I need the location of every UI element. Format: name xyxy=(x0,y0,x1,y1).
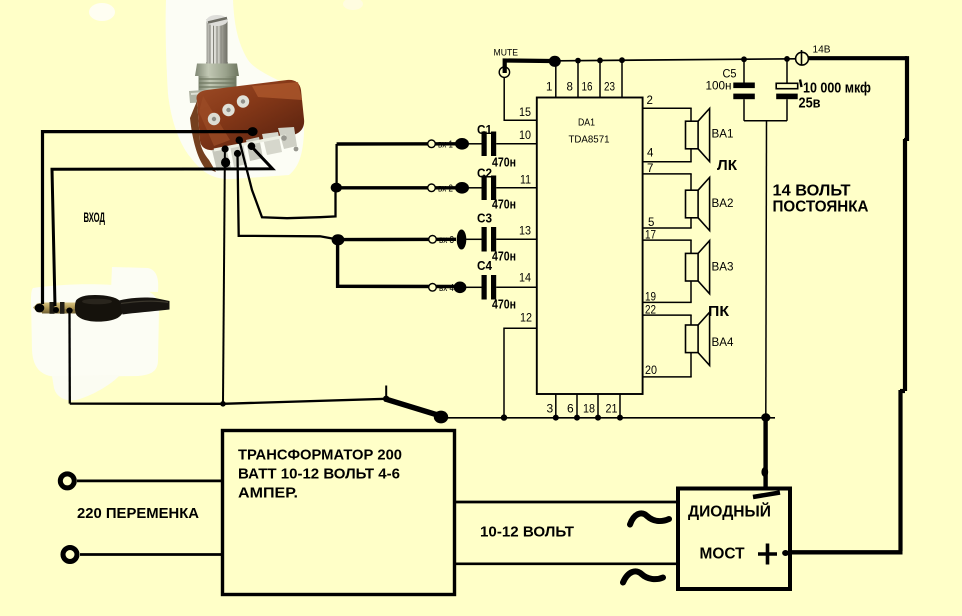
svg-text:12: 12 xyxy=(520,311,532,325)
svg-text:14 ВОЛЬТ: 14 ВОЛЬТ xyxy=(773,183,852,200)
terminal: Vx1 input circle and label xyxy=(428,140,454,151)
svg-text:14В: 14В xyxy=(813,44,831,56)
node: Vx4 solder blob xyxy=(454,282,467,294)
wire: BA4 bottom stub xyxy=(690,353,692,377)
svg-text:16: 16 xyxy=(582,82,593,94)
svg-text:MUTE: MUTE xyxy=(494,48,519,59)
svg-text:8: 8 xyxy=(567,82,573,94)
capacitor C6 electrolytic 10000uF xyxy=(776,59,871,121)
svg-text:TDA8571: TDA8571 xyxy=(569,134,610,146)
wire: pin 7 to BA2 xyxy=(643,173,692,175)
svg-text:вх 1: вх 1 xyxy=(438,140,453,151)
wire: 220V lower lead xyxy=(80,553,223,556)
svg-text:18: 18 xyxy=(583,402,595,416)
wire: pin 2 to BA1 xyxy=(643,107,692,109)
terminal: MUTE connector circle xyxy=(499,67,509,77)
wire: C3 to pin 13 xyxy=(496,238,537,240)
pin 16 lead xyxy=(599,60,601,97)
svg-text:13: 13 xyxy=(519,224,531,238)
wire: Vx2 feed xyxy=(340,186,457,189)
wire: ground bus xyxy=(446,417,775,419)
svg-text:6: 6 xyxy=(567,402,574,416)
svg-text:5: 5 xyxy=(648,217,654,229)
node: switch pivot dot xyxy=(383,396,389,402)
svg-text:23: 23 xyxy=(604,82,615,94)
svg-text:C4: C4 xyxy=(477,259,492,273)
wire: BA4 top stub xyxy=(690,315,692,325)
pin 3 lead xyxy=(555,394,557,418)
wire: +supply top bus xyxy=(559,59,796,61)
svg-text:BA2: BA2 xyxy=(712,198,734,210)
wire: C2 to pin 11 xyxy=(496,187,537,189)
wire: C1 to pin 10 xyxy=(496,143,537,145)
pin 23 lead xyxy=(621,60,623,97)
switch SA1 contact tick xyxy=(385,386,387,399)
svg-text:220 ПЕРЕМЕНКА: 220 ПЕРЕМЕНКА xyxy=(77,505,199,522)
label: 14 VOLT POSTOYANKA xyxy=(773,183,869,216)
transformer T1 box xyxy=(223,431,455,595)
node: pin12 ground junction dot xyxy=(501,414,507,420)
capacitor C5 xyxy=(706,59,755,121)
node: dot pin 23 xyxy=(619,57,625,63)
svg-text:10-12 ВОЛЬТ: 10-12 ВОЛЬТ xyxy=(480,524,574,541)
node A: junction blob Vx1+Vx2 xyxy=(331,183,342,193)
wire: BA3 bottom stub xyxy=(690,281,692,302)
svg-text:ПК: ПК xyxy=(708,304,729,320)
svg-text:ПОСТОЯНКА: ПОСТОЯНКА xyxy=(773,199,869,216)
svg-text:19: 19 xyxy=(645,292,656,304)
wire: Vx3 blob to C3 xyxy=(466,238,482,240)
wire: node A up to Vx1 line xyxy=(335,144,337,186)
svg-text:2: 2 xyxy=(647,95,653,107)
terminal: +14V connector circle xyxy=(796,44,831,66)
wire: pin 5 to BA2 xyxy=(643,227,692,229)
svg-text:МОСТ: МОСТ xyxy=(700,546,746,563)
svg-text:470н: 470н xyxy=(492,156,516,170)
wire: BA1 bottom stub xyxy=(690,149,692,162)
node: dot pin 16 xyxy=(597,58,603,64)
svg-text:вх 3: вх 3 xyxy=(439,235,454,246)
diode bridge VD1 box xyxy=(678,489,790,590)
node: pot terminal B solder dot xyxy=(234,150,241,157)
capacitor C2 xyxy=(477,167,516,212)
wire: filter ground drop to ground bus xyxy=(765,121,768,416)
pin 6 lead xyxy=(576,394,578,418)
wire: Vx1 blob to C1 xyxy=(467,143,482,145)
node: dot pin 8 xyxy=(575,58,581,64)
svg-text:C1: C1 xyxy=(477,123,492,137)
terminal: 220V lower ring xyxy=(63,548,77,562)
node: Vx2 solder blob xyxy=(455,182,469,194)
node: dot pin 18 xyxy=(595,415,601,421)
node: pot terminal T solder dot xyxy=(248,127,258,136)
terminal: Vx2 input circle and label xyxy=(428,184,454,195)
wire: BA2 top stub xyxy=(690,174,692,190)
wire: pot terminal B to input node B xyxy=(238,154,334,239)
wire: BA3 top stub xyxy=(690,240,692,253)
node B: junction blob Vx3+Vx4 xyxy=(332,234,345,245)
speaker BA4 xyxy=(686,312,735,365)
wire: C4 to pin 14 xyxy=(496,286,537,288)
wire: pin 22 to BA4 xyxy=(643,314,692,316)
node: pot-ground junction dot xyxy=(220,401,226,407)
AC tilde mark upper xyxy=(630,513,669,524)
svg-text:ДИОДНЫЙ: ДИОДНЫЙ xyxy=(688,503,771,521)
pin 1 lead xyxy=(555,61,557,98)
wire: MUTE lever to pin1 node (thick) xyxy=(505,61,550,74)
svg-text:вх 2: вх 2 xyxy=(438,184,453,195)
wire: 220V upper lead xyxy=(77,480,223,483)
svg-text:1: 1 xyxy=(546,82,552,94)
wire: pot ground lug to ground line xyxy=(223,150,225,403)
node: pot terminal R solder dot xyxy=(248,142,256,150)
svg-text:15: 15 xyxy=(519,105,531,119)
svg-text:25в: 25в xyxy=(799,96,821,112)
wire: Vx3 feed xyxy=(342,238,456,242)
node: dot C6 top xyxy=(784,56,790,62)
svg-text:470н: 470н xyxy=(492,298,516,312)
op-amp IC DA1 TDA8571 xyxy=(537,98,643,395)
wire: pin 12 to ground bus xyxy=(504,328,537,416)
wire: Vx1 feed xyxy=(337,142,457,146)
svg-text:BA3: BA3 xyxy=(712,262,734,274)
svg-text:21: 21 xyxy=(606,402,618,416)
wire: ground line from jack sleeve xyxy=(66,308,386,404)
wire: BA2 bottom stub xyxy=(690,218,692,228)
wire: pin 20 to BA4 xyxy=(643,376,692,378)
speaker BA1 xyxy=(686,108,734,161)
node: blob on bridge feed xyxy=(761,467,768,477)
svg-text:3: 3 xyxy=(547,402,554,416)
wire: Vx2 blob to C2 xyxy=(467,187,482,189)
svg-text:20: 20 xyxy=(645,365,657,377)
node: Vx1 solder blob xyxy=(455,138,469,150)
node: solder blob on pot ground lead xyxy=(221,158,230,168)
capacitor C3 xyxy=(477,212,516,264)
wire: Vx4 blob to C4 xyxy=(466,286,482,288)
svg-text:ТРАНСФОРМАТОР 200: ТРАНСФОРМАТОР 200 xyxy=(238,447,402,464)
svg-text:C2: C2 xyxy=(477,167,492,181)
wire: C5/C6 ground link xyxy=(744,120,787,122)
svg-text:DA1: DA1 xyxy=(578,117,595,129)
node: jack ring joint xyxy=(53,307,59,313)
wire: BA1 top stub xyxy=(690,108,692,121)
wire: secondary lower lead xyxy=(455,562,678,565)
svg-text:470н: 470н xyxy=(492,250,516,264)
svg-text:10 000 мкф: 10 000 мкф xyxy=(803,81,871,97)
speaker BA2 xyxy=(686,177,734,230)
wire: thick +14V feed right side xyxy=(790,56,907,552)
node: dot pin 21 xyxy=(617,415,623,421)
node: pot terminal L solder dot xyxy=(222,145,229,152)
node: dot C5 top xyxy=(741,56,747,62)
pin 21 lead xyxy=(619,394,621,418)
pin 8 lead xyxy=(577,61,579,98)
capacitor C4 xyxy=(477,259,516,312)
svg-text:BA4: BA4 xyxy=(712,337,735,349)
svg-text:АМПЕР.: АМПЕР. xyxy=(238,485,298,502)
svg-text:ВАТТ 10-12 ВОЛЬТ 4-6: ВАТТ 10-12 ВОЛЬТ 4-6 xyxy=(238,466,400,483)
potentiometer RP1 (photo) xyxy=(166,0,305,179)
terminal: Vx3 input circle and label xyxy=(429,235,455,246)
svg-text:470н: 470н xyxy=(492,198,516,212)
svg-text:10: 10 xyxy=(519,128,531,142)
wire: secondary upper lead xyxy=(455,501,678,504)
speaker BA3 xyxy=(686,241,734,294)
terminal: Vx4 input circle and label xyxy=(429,283,455,294)
pin 18 lead xyxy=(597,394,599,418)
svg-text:ЛК: ЛК xyxy=(717,158,737,174)
svg-text:14: 14 xyxy=(519,271,531,285)
label: bridge plus sign xyxy=(758,544,777,565)
svg-text:100н: 100н xyxy=(706,79,732,93)
node: pot wiper M solder dot xyxy=(236,136,244,144)
node: Vx3 solder blob xyxy=(457,230,467,250)
node: plus output dot xyxy=(782,550,789,556)
svg-text:7: 7 xyxy=(647,163,653,175)
node: pin1 junction dot on +bus xyxy=(549,56,561,67)
AC tilde mark lower xyxy=(623,571,663,582)
node: jack tip joint xyxy=(35,304,45,313)
wire: pin 17 to BA3 xyxy=(643,239,692,241)
svg-text:вх 4: вх 4 xyxy=(439,283,454,294)
wire: node B down and Vx4 feed xyxy=(338,244,455,287)
node: dot pin 6 xyxy=(574,415,580,421)
svg-text:11: 11 xyxy=(520,173,531,187)
capacitor C1 xyxy=(477,123,516,170)
wire: MUTE circle down to pin 15 xyxy=(504,78,537,121)
wire: pot terminal R to jack ring xyxy=(52,147,273,307)
label: bridge minus dash xyxy=(753,493,780,498)
terminal: 220V upper ring xyxy=(60,474,74,488)
svg-text:C3: C3 xyxy=(477,212,492,226)
node: ground bus left blob xyxy=(434,411,448,424)
node: ground bus right junction blob xyxy=(761,413,770,421)
wire: pot wiper M to input node A xyxy=(239,141,335,219)
wire: pot terminal to jack tip xyxy=(43,132,253,304)
svg-text:BA1: BA1 xyxy=(712,129,734,141)
switch SA1 lever (thick) xyxy=(387,400,436,415)
wire: pin 4 to BA1 xyxy=(643,161,692,163)
wire: pin 19 to BA3 xyxy=(643,301,692,303)
wire: thick drop to diode bridge xyxy=(763,418,767,487)
svg-text:ВХОД: ВХОД xyxy=(84,210,106,225)
svg-text:4: 4 xyxy=(647,148,654,160)
node: dot pin 3 xyxy=(553,415,559,421)
input jack XS1 (photo) xyxy=(31,267,170,400)
